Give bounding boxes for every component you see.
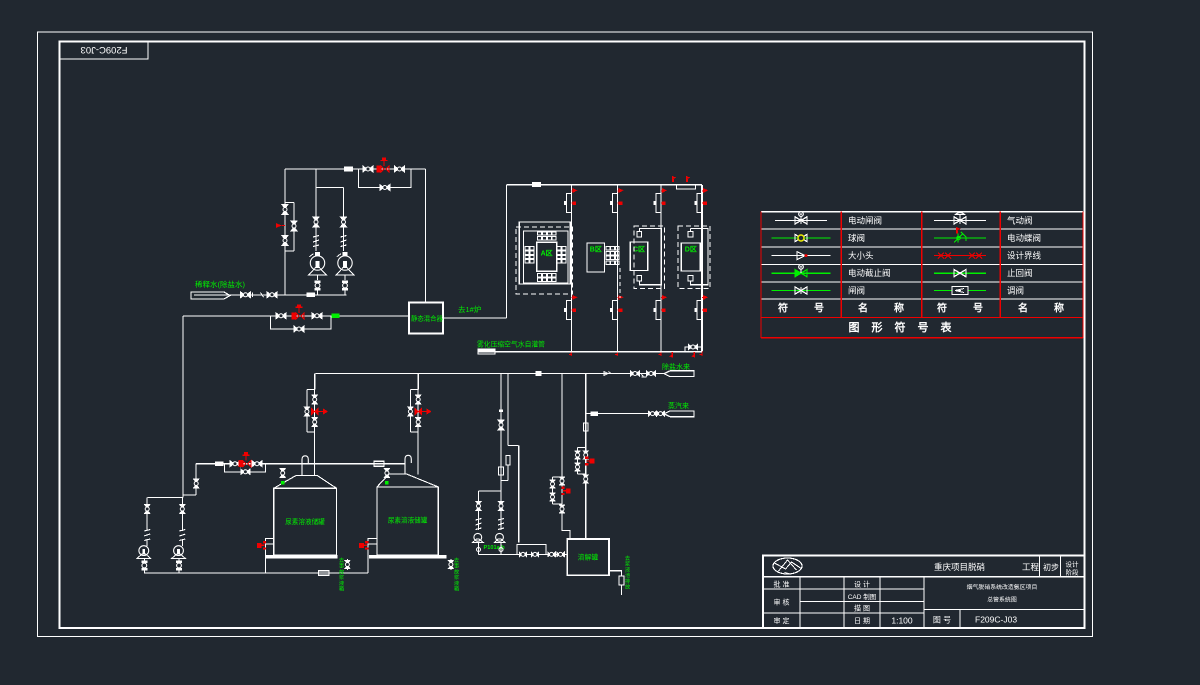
zone control valve upper bbox=[697, 194, 702, 213]
check valve CK2 bbox=[341, 236, 347, 238]
zone control valve upper bbox=[656, 194, 661, 213]
zone A dashed enclosure bbox=[516, 227, 573, 294]
valve V19 bbox=[557, 552, 565, 557]
svg-text:溶解罐: 溶解罐 bbox=[578, 553, 599, 562]
electric valve M3 bbox=[238, 460, 242, 467]
zone A tube grid right bbox=[557, 247, 561, 250]
bypass valve V26 bbox=[241, 469, 250, 474]
bypass loop wire bbox=[271, 316, 331, 329]
svg-text:C区: C区 bbox=[633, 246, 645, 254]
zone C dashed enclosure bbox=[634, 226, 664, 289]
check valve CK1 bbox=[313, 236, 319, 238]
symbol design boundary bbox=[934, 255, 986, 257]
zone control valve lower bbox=[613, 301, 618, 320]
valve V4 bbox=[313, 217, 319, 227]
valve V5 bbox=[341, 217, 347, 227]
check CK4 bbox=[498, 519, 504, 521]
svg-text:F209C-J03: F209C-J03 bbox=[81, 44, 128, 55]
valve P4a bbox=[180, 505, 185, 514]
zone D loop wire bbox=[690, 228, 708, 284]
svg-text:气动阀: 气动阀 bbox=[1007, 215, 1033, 225]
wire discharge header bbox=[285, 168, 426, 170]
zone B riser wire bbox=[617, 185, 619, 352]
svg-text:F209C-J03: F209C-J03 bbox=[975, 615, 1017, 625]
svg-text:设计: 设计 bbox=[1066, 560, 1080, 569]
red tee steam bbox=[590, 459, 595, 464]
tank2 urea storage bbox=[377, 474, 438, 487]
svg-text:图 号: 图 号 bbox=[933, 616, 951, 625]
bypass valve V10 bbox=[294, 326, 304, 332]
suction wire P3 bbox=[146, 498, 148, 532]
flange valve F1 bbox=[315, 281, 321, 283]
steam line wire bbox=[586, 413, 664, 415]
red inline valve tank1 fill bbox=[312, 409, 318, 415]
svg-text:电动蝶阀: 电动蝶阀 bbox=[1007, 233, 1041, 243]
tank1 fill riser wire bbox=[314, 374, 316, 390]
urea transfer drop wire bbox=[182, 316, 184, 495]
red tee dissolve bbox=[566, 488, 571, 493]
valve P3a bbox=[145, 505, 150, 514]
source flag dilution water bbox=[191, 292, 230, 299]
svg-text:稀释水(除盐水): 稀释水(除盐水) bbox=[195, 279, 245, 289]
outer drawing frame bbox=[38, 32, 1093, 637]
pump P2 bbox=[338, 256, 352, 270]
zone control valve lower bbox=[697, 301, 702, 320]
bypass valve V3 bbox=[380, 185, 390, 191]
svg-text:球阀: 球阀 bbox=[848, 233, 865, 243]
tank1 drain red valve bbox=[266, 539, 274, 545]
red tee J5 bbox=[691, 352, 695, 358]
zone B box bbox=[587, 243, 605, 272]
svg-text:符: 符 bbox=[937, 302, 947, 315]
header end U-loop bbox=[677, 186, 696, 189]
svg-text:号: 号 bbox=[814, 303, 824, 315]
tank1 vent gooseneck bbox=[302, 456, 308, 476]
tank2 roof valve bbox=[384, 469, 389, 478]
zone D top port bbox=[688, 232, 693, 237]
svg-text:日 期: 日 期 bbox=[854, 617, 870, 625]
tank1 drain valve bbox=[346, 559, 348, 561]
valve V20 bbox=[649, 411, 657, 416]
wire urea feed bbox=[183, 315, 409, 317]
pump P101a bbox=[474, 533, 482, 541]
pump risers bbox=[315, 169, 317, 251]
zone control valve lower bbox=[656, 301, 661, 320]
svg-text:B区: B区 bbox=[590, 246, 602, 254]
valve V13 bbox=[647, 371, 656, 376]
valve V22 bbox=[583, 423, 588, 431]
symbol electric butterfly valve bbox=[934, 237, 986, 239]
symbol ball valve bbox=[772, 237, 831, 239]
symbol check valve bbox=[934, 272, 986, 274]
svg-text:阶段: 阶段 bbox=[1066, 568, 1080, 577]
bypass loop wire bbox=[224, 464, 265, 472]
svg-text:CAD 制图: CAD 制图 bbox=[848, 592, 877, 601]
valve V23 bbox=[619, 576, 624, 585]
tank1 roof valve bbox=[280, 469, 285, 478]
dissolve water riser wire bbox=[500, 374, 502, 492]
zone A outer box bbox=[519, 222, 570, 284]
red tee J2 bbox=[686, 176, 690, 182]
red tee header joint bbox=[568, 351, 572, 356]
flushing bypass loop bbox=[685, 347, 702, 352]
svg-text:调阀: 调阀 bbox=[1007, 286, 1024, 296]
red tee header joint bbox=[658, 351, 662, 356]
svg-text:审 定: 审 定 bbox=[774, 616, 790, 625]
valve V9 bbox=[312, 313, 322, 319]
tank fill line wire bbox=[196, 463, 405, 465]
green pipe mark bbox=[332, 314, 340, 318]
mixer outlet wire bbox=[443, 317, 507, 319]
svg-text:1:100: 1:100 bbox=[891, 616, 913, 626]
svg-text:符: 符 bbox=[895, 320, 906, 334]
dissolving tank box bbox=[567, 539, 609, 575]
valve V14 bbox=[499, 410, 503, 413]
zone D box bbox=[681, 243, 700, 271]
tank2 fill riser wire bbox=[417, 374, 419, 390]
tank2 drain valve bbox=[450, 559, 452, 561]
svg-text:名: 名 bbox=[858, 302, 868, 315]
svg-text:工程: 工程 bbox=[1022, 562, 1040, 572]
flag steam bbox=[664, 411, 694, 417]
pump suction header bbox=[479, 490, 502, 492]
flow element bbox=[319, 571, 330, 575]
check P4 bbox=[179, 530, 185, 532]
wire riser to spray header bbox=[506, 185, 508, 318]
valve V2 bbox=[395, 166, 405, 172]
svg-text:描 图: 描 图 bbox=[854, 604, 870, 613]
svg-text:号: 号 bbox=[918, 321, 929, 334]
pump P3 bbox=[139, 546, 149, 556]
drawing number cell bbox=[959, 610, 961, 629]
valve V17 bbox=[498, 502, 503, 511]
strainer Y bbox=[641, 374, 647, 378]
spray header wire bbox=[507, 184, 702, 186]
svg-text:名: 名 bbox=[1018, 302, 1028, 315]
svg-text:设 计: 设 计 bbox=[854, 580, 870, 589]
drain flag red bbox=[276, 223, 282, 228]
steam branch wire bbox=[585, 374, 587, 540]
symbol reducer bbox=[772, 255, 831, 257]
symbol gate valve bbox=[772, 290, 831, 292]
strainer box assembly bbox=[517, 545, 546, 555]
zone D bottom port bbox=[688, 275, 693, 280]
svg-text:去事故浆液箱: 去事故浆液箱 bbox=[339, 556, 345, 593]
zone C box bbox=[630, 242, 648, 271]
red tee header joint bbox=[615, 351, 619, 356]
zone control valve lower bbox=[566, 301, 571, 320]
svg-text:静态混合器: 静态混合器 bbox=[411, 314, 444, 323]
valve V8 bbox=[276, 313, 286, 319]
svg-text:大小头: 大小头 bbox=[848, 251, 874, 261]
svg-text:称: 称 bbox=[1054, 302, 1064, 315]
svg-text:D区: D区 bbox=[685, 246, 697, 254]
tank1 urea storage bbox=[274, 475, 337, 488]
svg-text:除盐水来: 除盐水来 bbox=[662, 362, 690, 371]
valve V12 bbox=[631, 371, 640, 376]
symbol electric gate valve bbox=[775, 219, 827, 221]
svg-text:去浆液池排放: 去浆液池排放 bbox=[625, 554, 631, 591]
zone A tube grid left bbox=[525, 247, 529, 250]
svg-text:批 准: 批 准 bbox=[774, 580, 790, 589]
title block frame bbox=[763, 556, 1085, 629]
zone C riser wire bbox=[660, 185, 662, 352]
svg-text:电动截止阀: 电动截止阀 bbox=[848, 268, 891, 278]
dissolve outlet wire bbox=[609, 571, 622, 576]
svg-text:设计界线: 设计界线 bbox=[1007, 251, 1042, 261]
discharge valve P3 bbox=[143, 559, 145, 561]
svg-text:闸阀: 闸阀 bbox=[848, 286, 865, 296]
zone A tube grid top bbox=[538, 232, 542, 235]
electric valve M1 bbox=[377, 166, 381, 173]
zone C top port bbox=[637, 232, 642, 237]
second dissolve branch wire bbox=[507, 374, 509, 446]
pump P101b bbox=[496, 533, 504, 541]
symbol table bbox=[761, 212, 1083, 338]
static mixer box bbox=[409, 303, 443, 334]
tank2 drain red valve bbox=[368, 539, 377, 545]
top-left drawing number box F209C-J03 (rotated) bbox=[60, 42, 149, 60]
svg-text:尿素溶液储罐: 尿素溶液储罐 bbox=[388, 516, 428, 525]
svg-text:烟气脱硝系统改造氨区项目: 烟气脱硝系统改造氨区项目 bbox=[967, 583, 1038, 591]
tank outlet manifold wire bbox=[144, 572, 368, 574]
svg-text:去1#炉: 去1#炉 bbox=[458, 304, 481, 314]
check P3 bbox=[144, 530, 150, 532]
valve V25 bbox=[252, 461, 262, 467]
valve V7 bbox=[267, 292, 277, 298]
demin water wire bbox=[316, 373, 664, 375]
svg-text:初步: 初步 bbox=[1043, 562, 1059, 572]
tank pump suction header bbox=[148, 497, 183, 499]
valve V1 bbox=[363, 166, 373, 172]
dilution water suction manifold bbox=[194, 294, 346, 296]
red tee J3 bbox=[669, 352, 673, 358]
company logo bbox=[773, 558, 802, 574]
svg-text:图: 图 bbox=[849, 321, 860, 334]
wire riser to strainer bbox=[518, 445, 520, 542]
steam bypass loop bbox=[578, 448, 586, 475]
vertical valve group with bypass bbox=[293, 203, 295, 251]
zone B tube grid bbox=[606, 247, 610, 251]
symbol damper valve bbox=[934, 290, 986, 292]
flushing header end cap bbox=[478, 349, 495, 351]
valve V15 bbox=[499, 467, 504, 475]
valve V18 bbox=[548, 552, 556, 557]
zone A riser wire bbox=[570, 185, 572, 352]
svg-text:符: 符 bbox=[778, 302, 788, 315]
zone B dashed tail bbox=[619, 268, 621, 299]
valve V15b bbox=[506, 456, 510, 465]
zone D riser wire bbox=[701, 185, 703, 352]
svg-text:A区: A区 bbox=[541, 250, 553, 258]
pipe spec break bbox=[374, 461, 384, 466]
svg-text:审 核: 审 核 bbox=[774, 598, 790, 607]
svg-text:号: 号 bbox=[973, 303, 983, 315]
svg-text:尿素溶液储罐: 尿素溶液储罐 bbox=[285, 517, 325, 526]
zone A core box bbox=[537, 242, 557, 271]
zone C loop wire bbox=[639, 228, 661, 284]
valve V27 bbox=[194, 479, 199, 488]
suction wire P4 bbox=[181, 498, 183, 532]
pump P4 bbox=[174, 546, 184, 556]
svg-text:表: 表 bbox=[940, 320, 953, 334]
valve V24 bbox=[230, 461, 240, 467]
svg-text:去事故浆液箱: 去事故浆液箱 bbox=[454, 556, 460, 593]
zone A inner box bbox=[523, 231, 568, 283]
svg-text:重庆项目脱硝: 重庆项目脱硝 bbox=[934, 562, 985, 572]
pipe tick bbox=[536, 371, 542, 376]
svg-text:雾化压缩空气水自灌管: 雾化压缩空气水自灌管 bbox=[477, 340, 545, 349]
svg-text:称: 称 bbox=[894, 302, 904, 315]
valve V16 bbox=[476, 502, 481, 511]
inner drawing frame bbox=[60, 42, 1085, 629]
dissolve top branch wire bbox=[561, 374, 563, 478]
red tee header joint bbox=[699, 351, 703, 356]
bypass loop wire bbox=[359, 169, 412, 188]
feed pump branch wires bbox=[478, 491, 480, 530]
red inline valve tank2 fill bbox=[415, 409, 421, 415]
check CK3 bbox=[476, 519, 482, 521]
electric valve M2 bbox=[292, 312, 296, 319]
zone D dashed enclosure bbox=[678, 226, 710, 289]
title block right section bbox=[1039, 556, 1041, 577]
discharge valve P4 bbox=[178, 559, 180, 561]
svg-text:电动闸阀: 电动闸阀 bbox=[848, 215, 882, 225]
bypass valve V11 bbox=[689, 344, 698, 349]
valve V6 bbox=[241, 292, 251, 298]
wire minimum-flow branch bbox=[284, 169, 286, 295]
pump P1 bbox=[310, 256, 324, 270]
wire riser to mixer bbox=[425, 169, 427, 303]
zone control valve upper bbox=[613, 194, 618, 213]
feed valve riser bbox=[195, 464, 197, 479]
pump discharge wire bbox=[478, 543, 480, 555]
flushing header wire bbox=[478, 351, 702, 353]
symbol pneumatic valve bbox=[934, 219, 986, 221]
zone control valve upper bbox=[566, 194, 571, 213]
svg-text:蒸汽来: 蒸汽来 bbox=[668, 401, 689, 410]
zone A tube grid bottom bbox=[538, 274, 542, 277]
flag demin water bbox=[664, 371, 694, 377]
zone C bottom port bbox=[637, 275, 642, 280]
symbol electric globe valve bbox=[772, 272, 831, 274]
valve V21 bbox=[657, 411, 665, 416]
tank2 vent gooseneck bbox=[405, 455, 411, 474]
reducer bbox=[604, 372, 611, 376]
svg-text:止回阀: 止回阀 bbox=[1007, 268, 1033, 278]
pipe spec break bbox=[344, 166, 353, 171]
svg-text:总管系统图: 总管系统图 bbox=[987, 596, 1017, 604]
reducer fittings bbox=[253, 293, 264, 298]
flange valve F2 bbox=[342, 281, 348, 283]
red tee J1 bbox=[672, 176, 676, 182]
svg-text:形: 形 bbox=[872, 321, 883, 334]
